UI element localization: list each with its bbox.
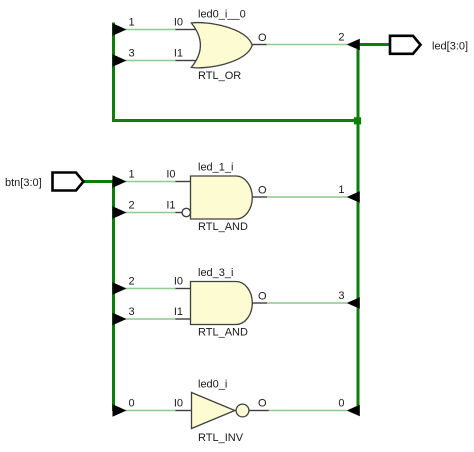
- svg-text:2: 2: [128, 200, 134, 212]
- wire: AND2 output dark stub: [252, 302, 267, 303]
- wire: INV output net to led bus (green): [269, 410, 347, 412]
- input port btn[3:0]: [53, 173, 84, 191]
- wire: OR output net to led bus (green): [267, 44, 348, 46]
- inversion bubble on AND1 I1: [182, 208, 190, 216]
- svg-text:btn[3:0]: btn[3:0]: [5, 177, 42, 189]
- and-gate led_1_i body: [191, 176, 253, 219]
- wire: lower-left vertical bus segment (btn bus): [112, 180, 115, 412]
- svg-text:RTL_AND: RTL_AND: [198, 221, 248, 233]
- bus tap arrow pin 1 (AND1 output): [347, 191, 360, 203]
- svg-text:0: 0: [338, 398, 344, 410]
- wire: upper-left vertical bus segment (btn bus): [112, 23, 115, 123]
- bus tap arrow pin 2 (OR output to led): [347, 39, 360, 51]
- bus tap arrow pin 1 (OR I0): [113, 23, 127, 35]
- wire: AND1 I1 dark stub: [176, 212, 184, 213]
- wire: OR output dark stub: [253, 44, 267, 45]
- wire: AND1 output dark stub: [252, 196, 267, 197]
- svg-text:I1: I1: [174, 48, 183, 60]
- svg-text:RTL_OR: RTL_OR: [198, 70, 241, 82]
- svg-text:I0: I0: [174, 398, 183, 410]
- wire: net to OR input I0 (green): [122, 29, 176, 31]
- wire: net to AND1 input I0 (green): [122, 181, 176, 183]
- bus tap arrow pin 3 (AND2 I1): [113, 313, 127, 325]
- svg-text:RTL_AND: RTL_AND: [198, 327, 248, 339]
- wire: btn port to left bus: [83, 180, 114, 183]
- svg-text:2: 2: [338, 32, 344, 44]
- wire: right bus to led port: [358, 43, 390, 46]
- wire: INV output dark stub: [249, 410, 269, 411]
- svg-text:O: O: [258, 291, 267, 303]
- wire: OR I0 dark stub: [176, 29, 201, 30]
- svg-text:RTL_INV: RTL_INV: [198, 432, 244, 444]
- svg-text:led0_i: led0_i: [198, 379, 227, 391]
- wire: right vertical bus segment (led bus): [357, 43, 360, 411]
- bus tap arrow pin 2 (AND1 I1): [113, 206, 127, 218]
- wire: horizontal bus segment at y=120: [112, 119, 358, 122]
- svg-text:led[3:0]: led[3:0]: [432, 41, 468, 53]
- svg-text:led_1_i: led_1_i: [198, 162, 233, 174]
- svg-text:O: O: [258, 398, 267, 410]
- svg-text:3: 3: [338, 290, 344, 302]
- svg-text:O: O: [258, 32, 267, 44]
- svg-text:led_3_i: led_3_i: [198, 267, 233, 279]
- wire: AND1 output net to led bus (green): [267, 196, 347, 198]
- output port led[3:0]: [390, 36, 421, 54]
- svg-text:0: 0: [128, 398, 134, 410]
- inversion bubble on INV output: [236, 404, 249, 417]
- svg-text:I0: I0: [174, 276, 183, 288]
- bus tap arrow pin 3 (OR I1): [113, 54, 127, 66]
- svg-text:I0: I0: [174, 17, 183, 29]
- and-gate led_3_i body: [191, 282, 253, 325]
- wire: AND2 I0 dark stub: [176, 288, 192, 289]
- wire: net to AND1 input I1 (green): [122, 212, 176, 214]
- wire: OR I1 dark stub: [176, 60, 201, 61]
- svg-text:led0_i__0: led0_i__0: [198, 9, 246, 21]
- wire: net to AND2 input I1 (green): [122, 318, 176, 320]
- svg-text:1: 1: [128, 17, 134, 29]
- wire: AND2 I1 dark stub: [176, 318, 192, 319]
- svg-text:O: O: [258, 185, 267, 197]
- bus tap arrow pin 3 (AND2 output): [347, 297, 360, 309]
- svg-text:3: 3: [128, 48, 134, 60]
- inverter led0_i body: [192, 393, 235, 429]
- wire: AND1 I0 dark stub: [176, 181, 192, 182]
- bus tap arrow pin 0 (INV output): [347, 405, 360, 417]
- wire: INV input dark stub: [176, 410, 193, 411]
- junction: bus junction of horizontal bus and right bus: [354, 117, 361, 124]
- svg-text:2: 2: [128, 276, 134, 288]
- wire: net to AND2 input I0 (green): [122, 288, 176, 290]
- bus tap arrow pin 0 (INV input): [113, 404, 127, 416]
- bus tap arrow pin 1 (AND1 I0): [113, 175, 127, 187]
- svg-text:I1: I1: [174, 306, 183, 318]
- or-gate led0_i__0 body: [191, 23, 252, 68]
- svg-text:1: 1: [338, 184, 344, 196]
- svg-text:1: 1: [128, 169, 134, 181]
- svg-text:3: 3: [128, 306, 134, 318]
- wire: net to INV input I0 (green): [122, 410, 176, 412]
- bus tap arrow pin 2 (AND2 I0): [113, 282, 127, 294]
- wire: net to OR input I1 (green): [122, 60, 176, 62]
- svg-text:I0: I0: [166, 169, 175, 181]
- wire: AND2 output net to led bus (green): [267, 302, 347, 304]
- svg-text:I1: I1: [166, 200, 175, 212]
